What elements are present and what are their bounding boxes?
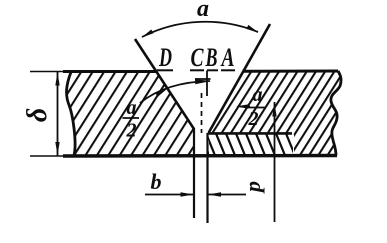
svg-text:B: B [205,43,218,72]
hatching right plate [208,71,341,156]
alpha arc left arrowhead [142,30,154,38]
left half-angle arrowhead on bevel [155,89,167,97]
bottom surface line [63,154,337,158]
svg-text:δ: δ [22,108,53,122]
underline of D [157,69,173,71]
root face strip white-out [209,134,294,154]
thickness dimension line [57,72,59,156]
hatching left plate [67,72,194,156]
left a/2 fraction bar [123,117,140,119]
root gap arrow left-pointing [208,192,221,196]
svg-text:A: A [220,43,234,72]
top surface line left plate [63,70,158,73]
left bevel face line (extended above surface) [135,39,194,129]
thickness arrow up [55,73,59,86]
left plate wavy break edge [67,72,76,156]
svg-text:a: a [127,97,137,119]
svg-text:a: a [253,84,263,106]
top surface line left extension [30,71,64,73]
root gap dimension line right part [208,194,247,196]
hatching root face strip (opposite direction) [206,134,295,156]
underline of A [221,69,235,71]
root face arrow up [272,104,276,117]
underline of C [190,69,204,71]
root face line (p level) [208,132,292,135]
horizontal tick at groove mouth [195,78,211,80]
left root gap edge [193,128,195,218]
svg-text:a: a [197,0,209,22]
alpha angle arc [142,22,258,37]
svg-text:2: 2 [248,108,259,130]
B extension tick below surface [206,71,208,97]
left half-angle leader arc [140,81,210,103]
bottom surface line left extension [30,155,64,157]
top surface line right plate [243,70,339,73]
svg-text:D: D [158,43,172,72]
right plate wavy break edge [331,71,341,156]
right half-angle arrowhead on bevel [236,104,248,108]
right bevel face line (extended above surface) [209,24,271,133]
root face dimension line [274,102,276,222]
right half-angle leader line [240,106,250,108]
right a/2 fraction bar [248,107,266,109]
svg-text:2: 2 [126,120,137,142]
centre dashed line [201,93,203,133]
right root gap edge [206,133,208,223]
root gap dimension line left part [145,194,194,196]
left half-angle arrowhead at centreline [195,79,211,84]
underline of B [207,69,218,71]
root gap arrow right-pointing [181,192,194,196]
alpha arc right arrowhead [246,25,258,33]
svg-text:b: b [151,169,162,194]
thickness arrow down [55,142,59,155]
svg-text:p: p [240,181,265,194]
svg-text:C: C [191,43,204,72]
